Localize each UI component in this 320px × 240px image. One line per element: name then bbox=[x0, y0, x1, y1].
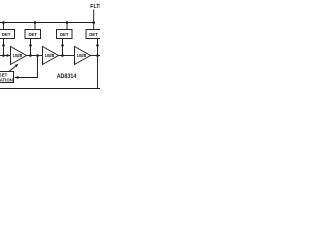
wire: A2 to A3 interstage bbox=[59, 55, 75, 57]
junction node on bus at DET2 bbox=[34, 21, 37, 24]
svg-text:AD8314: AD8314 bbox=[57, 73, 77, 80]
junction node on bus at DET3 bbox=[66, 21, 69, 24]
junction node interstage at DET3 tap bbox=[61, 54, 64, 57]
wire: offset compensation output diagonal into A1 bbox=[9, 66, 16, 72]
arrowhead into DET3 bbox=[61, 42, 64, 46]
wire: A3 output to right edge bbox=[91, 55, 101, 57]
wire: A1 to A2 interstage bbox=[27, 55, 43, 57]
wire: bottom rail bbox=[0, 88, 100, 90]
wire: FLTR pin vertical bbox=[93, 10, 95, 30]
svg-text:DET: DET bbox=[89, 32, 98, 38]
arrowhead into DET2 bbox=[29, 42, 32, 46]
svg-text:10dB: 10dB bbox=[77, 53, 87, 58]
svg-text:DET: DET bbox=[2, 32, 11, 38]
amplifier A3 10dB bbox=[75, 47, 91, 65]
wire: DET2 input tap bbox=[30, 39, 32, 56]
wire: DET2 output to bus bbox=[34, 23, 36, 30]
junction node on bus at DET1 bbox=[2, 21, 5, 24]
svg-text:10dB: 10dB bbox=[13, 53, 23, 58]
junction node interstage at DET2 tap bbox=[29, 54, 32, 57]
arrowhead offset diagonal into A1 bbox=[15, 64, 19, 67]
svg-text:DET: DET bbox=[28, 32, 37, 38]
wire: DET1 output to bus bbox=[3, 23, 5, 30]
detector DET2 bbox=[25, 30, 41, 39]
wire: offset feedback drop bbox=[15, 56, 38, 78]
svg-text:FLTR: FLTR bbox=[90, 4, 100, 10]
offset compensation block (clipped at left) bbox=[0, 72, 14, 83]
detector DET1 (clipped at left) bbox=[0, 30, 15, 39]
junction node input line at DET1 tap bbox=[2, 54, 5, 57]
wire: DET1 input tap bbox=[3, 39, 5, 56]
svg-text:10dB: 10dB bbox=[45, 53, 55, 58]
amplifier A1 10dB bbox=[11, 47, 27, 65]
wire: detector summing bus to FLTR bbox=[0, 22, 94, 24]
junction node A3 output at DET4 tap bbox=[96, 54, 99, 57]
amplifier A2 10dB bbox=[43, 47, 59, 65]
svg-text:DET: DET bbox=[60, 32, 69, 38]
wire: DET3 input tap bbox=[62, 39, 64, 56]
detector DET3 bbox=[57, 30, 73, 39]
arrowhead into DET4 bbox=[96, 42, 99, 46]
wire: input line into amp A1 bbox=[0, 55, 11, 57]
junction node bus to FLTR bbox=[92, 21, 95, 24]
arrowhead into DET1 bbox=[2, 42, 5, 46]
wire: DET3 output to bus bbox=[66, 23, 68, 30]
detector DET4 (clipped at right) bbox=[86, 30, 101, 39]
arrowhead into offset compensation block bbox=[15, 76, 19, 79]
arrowhead input into amp A1 bbox=[7, 54, 11, 57]
wire: DET4 input tap and output drop to bottom rail bbox=[97, 39, 99, 89]
svg-text:COMPENSATION: COMPENSATION bbox=[0, 77, 13, 82]
junction node interstage at offset drop bbox=[36, 54, 39, 57]
